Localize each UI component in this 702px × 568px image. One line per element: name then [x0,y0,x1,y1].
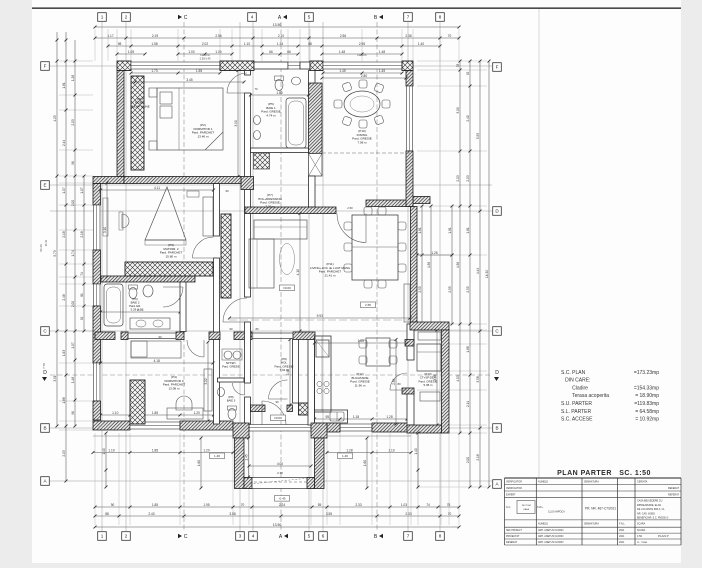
wall C stub 2 [121,332,128,340]
svg-text:96: 96 [71,411,75,415]
door tech room [390,373,407,390]
svg-text:4.36: 4.36 [427,262,431,268]
svg-text:96: 96 [71,161,75,165]
svg-text:B: B [43,426,46,431]
bath2 right wall [180,282,186,332]
svg-text:1.74: 1.74 [71,250,75,256]
svg-text:8: 8 [439,15,442,20]
left wall master part [93,184,101,206]
svg-text:1.10: 1.10 [108,448,114,452]
living rug oval [280,244,295,275]
svg-text:14.30: 14.30 [485,270,489,279]
svg-text:NUMELE: NUMELE [538,523,548,526]
bath1 sink top [292,77,301,85]
svg-text:1.00: 1.00 [188,50,194,54]
svg-text:88: 88 [308,42,312,46]
porch inner dim [248,438,250,477]
wall below shaft [309,176,316,207]
living L sofa horizontal [254,220,307,239]
svg-text:90: 90 [111,503,115,507]
svg-text:3.10: 3.10 [103,227,107,233]
svg-text:1.03: 1.03 [401,503,407,507]
dining right wall lower [406,151,413,207]
svg-text:1.05: 1.05 [128,50,134,54]
living dining table [352,215,398,280]
laundry machines [224,351,232,359]
svg-text:2.56: 2.56 [215,34,221,38]
extension lines top [94,29,96,61]
svg-text:1.65: 1.65 [358,339,364,343]
svg-text:IMPREJMUIRE, ELAN: IMPREJMUIRE, ELAN [637,504,661,507]
svg-text:13.50: 13.50 [273,523,282,527]
svg-text:ARH. ANETUS FLORIN: ARH. ANETUS FLORIN [538,541,564,544]
svg-text:1.73: 1.73 [151,69,157,73]
svg-text:80: 80 [397,382,401,386]
level label porch right [338,453,353,459]
porch side dim left [200,438,202,488]
under-wall dim right of porch [327,452,411,454]
bedroom1 bottom wall [124,177,241,184]
window master left [94,205,101,250]
svg-text:81: 81 [80,293,84,297]
left wall mid part [93,250,101,284]
sill line bottom right [327,435,411,437]
porch bottom end blocks [244,478,252,489]
wall C thin connector [128,332,176,334]
porch left wall [235,438,245,489]
svg-text:1.88: 1.88 [466,346,470,352]
svg-text:4.11: 4.11 [154,186,160,190]
window kitchen bottom [340,424,372,431]
svg-text:2021: 2021 [619,535,625,538]
svg-text:REFERAT: REFERAT [668,494,680,497]
svg-text:3: 3 [239,534,242,539]
wall C stub 5 [234,332,252,340]
svg-text:2.55: 2.55 [466,286,470,292]
grid bubbles bottom [98,532,107,541]
inner dim kitchen [315,342,408,344]
svg-text:1.00: 1.00 [215,50,221,54]
svg-text:2.65: 2.65 [365,303,371,307]
kitchen counter bottom with sink [315,410,348,423]
dim chain left tier4 [83,176,85,331]
svg-text:PLAN PARTER SC. 1:50: PLAN PARTER SC. 1:50 [557,470,651,477]
kitchen right wall stubs [405,340,414,347]
svg-text:F: F [44,64,47,69]
svg-text:90: 90 [225,189,229,193]
dim chain bottom tier1 [95,506,459,508]
svg-text:= 64.58mp: = 64.58mp [635,409,659,415]
svg-text:1.45: 1.45 [379,69,385,73]
svg-text:S.L. PARTER: S.L. PARTER [561,409,591,415]
WC toilet [228,409,236,420]
svg-text:2.03: 2.03 [62,450,66,456]
tech room bottom wall [407,425,442,433]
svg-text:3.58: 3.58 [476,376,480,382]
inner dim living long [230,317,411,319]
svg-text:= 10.92mp: = 10.92mp [635,417,659,423]
bath2 sink [143,285,153,297]
window bath1 top [288,62,300,69]
top wall pillar bath/dining [310,61,323,71]
svg-text:2.02: 2.02 [202,42,208,46]
living top wall [245,207,336,214]
svg-text:D: D [495,370,499,376]
svg-text:Fe+11'a: Fe+11'a [200,53,210,57]
svg-text:BENEFICIAR: S.C. RVDSN 2: BENEFICIAR: S.C. RVDSN 2 [637,517,669,520]
bath2 toilet [129,288,137,299]
tech room top wall [410,322,449,330]
dim chain right tier1 [488,61,490,487]
svg-text:±0.00: ±0.00 [274,416,282,420]
master wardrobe band X [125,262,213,276]
svg-text:2.44: 2.44 [62,140,66,146]
porch junction pillar left [233,423,249,438]
svg-text:1.40: 1.40 [418,42,424,46]
svg-text:BAIE 3: BAIE 3 [227,398,236,402]
svg-text:2.18: 2.18 [62,231,66,237]
svg-text:2.56: 2.56 [340,34,346,38]
inner dim bath2 row [101,311,181,313]
svg-text:S.C. PLAN: S.C. PLAN [561,370,586,376]
svg-text:2.10: 2.10 [278,34,284,38]
svg-text:4.36: 4.36 [456,262,460,268]
svg-text:-0.45: -0.45 [278,497,285,501]
tech room desk [420,392,440,401]
window bedroom3 bottom [130,422,180,429]
kitchen left wall [308,340,315,426]
dim right short 1.26 [417,254,452,256]
svg-text:1.55: 1.55 [196,69,202,73]
svg-text:2.48: 2.48 [62,294,66,300]
svg-text:PR. NR. 467-C7/2021: PR. NR. 467-C7/2021 [585,507,616,511]
svg-text:13.46 m: 13.46 m [197,134,208,138]
svg-text:1.85: 1.85 [152,503,158,507]
window dining french top [323,62,402,69]
window dining right [407,86,413,151]
svg-text:EXPERT: EXPERT [506,494,516,497]
svg-text:7: 7 [407,15,410,20]
svg-text:1.95: 1.95 [203,503,209,507]
svg-text:Pard. GRESIE: Pard. GRESIE [222,364,240,368]
level label porch left [210,453,225,459]
svg-text:4.18: 4.18 [154,359,160,363]
bottom wall left corner [93,421,130,430]
top wall thin seg bath1 right [300,62,310,69]
inner dim master width [101,189,214,191]
svg-text:2.14: 2.14 [466,401,470,407]
svg-text:2021: 2021 [619,541,625,544]
svg-text:4: 4 [251,15,254,20]
svg-text:1.28: 1.28 [386,415,392,419]
svg-text:1.07: 1.07 [62,187,66,193]
wall C stub 3 [176,332,184,340]
master right wardrobe [203,197,213,236]
svg-text:Cladire: Cladire [561,385,588,391]
svg-text:2.00: 2.00 [71,200,75,206]
porch right wall [315,438,325,489]
svg-text:1: 1 [101,534,104,539]
bed1 fold line [205,132,223,150]
shaft with X below bath1 [309,154,323,177]
svg-text:B: B [495,426,498,431]
kitchen right wall [407,324,414,360]
bath1 right wall upper thin [309,71,316,84]
flue dark block [299,403,309,415]
top wall corner pillar left [117,61,131,71]
svg-text:1: 1 [101,15,104,20]
svg-text:2.50/1.45: 2.50/1.45 [200,56,211,60]
dim chain bottom tier2 [95,515,459,517]
svg-text:2.80: 2.80 [361,74,367,78]
master nightstand [187,191,199,197]
inner dim row kitchen bottom [315,418,408,420]
dim chain left tier3 [74,61,76,426]
wall C stub 1 [95,332,115,340]
inner dim master room [101,362,214,364]
sill line bottom left [93,435,233,437]
svg-text:=119.83mp: =119.83mp [634,401,659,407]
svg-text:1:50: 1:50 [637,534,643,538]
top wall pillar right [402,61,413,71]
svg-text:SCARA: SCARA [637,529,646,532]
door WC [233,383,245,395]
svg-text:CERINTA: CERINTA [637,481,648,484]
scan top edge line [32,7,681,9]
door bedroom1 ensuite [227,73,247,93]
dim chain right of living wall [421,206,423,324]
svg-text:±0.00: ±0.00 [283,286,291,290]
dim chain top tier3 [108,45,440,47]
svg-text:4.10: 4.10 [296,269,300,275]
bath2 vanity [130,318,170,329]
svg-text:1.81: 1.81 [418,227,422,233]
grid bubbles right [493,63,502,72]
svg-text:80: 80 [255,327,259,331]
svg-text:3.55: 3.55 [326,512,332,516]
svg-text:70: 70 [448,512,452,516]
top wall thin seg bath1 left [254,62,288,69]
svg-text:3.02: 3.02 [204,378,208,384]
extension lines left [59,60,93,62]
svg-text:2.03: 2.03 [466,175,470,181]
porch floor slope line [250,478,310,484]
svg-text:VERIFICATOR: VERIFICATOR [506,481,522,484]
svg-text:REFERAT: REFERAT [668,487,680,490]
dim chain right tier2 [479,61,481,487]
inner vdim bedroom1 [237,71,239,177]
dining table oval [344,91,380,117]
svg-text:F.N.L.: F.N.L. [619,523,626,526]
svg-text:1.07: 1.07 [80,187,84,193]
svg-text:1.26: 1.26 [431,251,437,255]
svg-text:2.40: 2.40 [148,512,154,516]
svg-text:7.04 m: 7.04 m [280,368,290,372]
kitchen stove circles [317,381,322,386]
svg-text:1.81: 1.81 [62,82,66,88]
washer X box in niche [254,153,270,169]
svg-text:4.00: 4.00 [277,462,283,466]
master chair D [122,214,129,228]
svg-text:92: 92 [80,317,84,321]
svg-text:1.46: 1.46 [342,454,348,458]
svg-text:1.40: 1.40 [414,448,418,454]
svg-text:1.20: 1.20 [194,411,200,415]
extension lines bottom [94,433,96,525]
inner vertical dim living [299,214,301,332]
svg-text:2.18: 2.18 [476,454,480,460]
bath1 toilet [275,80,283,91]
svg-text:95: 95 [325,415,329,419]
hall right wall [293,340,299,404]
svg-text:1.35: 1.35 [277,42,283,46]
level label porch floor [275,496,290,502]
svg-text:= 18.90mp: = 18.90mp [635,393,659,399]
living top wall right of door [366,200,413,207]
bath2 tub [104,284,123,326]
svg-text:DE LOCUINTE IDM A, CL: DE LOCUINTE IDM A, CL [637,508,665,511]
svg-text:ARH. ANETUS FLORIN: ARH. ANETUS FLORIN [538,529,564,532]
door bath2 [163,287,183,307]
svg-text:90: 90 [275,400,279,404]
porch side dim right [366,438,368,488]
extension lines right [417,60,487,62]
left wall upper block [117,71,124,177]
dim chain left tier2 [65,61,67,481]
svg-text:15.80 m: 15.80 m [165,254,176,258]
svg-text:Fe+11'b: Fe+11'b [357,53,367,57]
window bedroom1 top [131,62,220,69]
svg-text:TECTUM: TECTUM [521,505,530,507]
svg-text:5.55: 5.55 [476,133,480,139]
door master bedroom [193,237,214,258]
svg-text:2.03: 2.03 [456,175,460,181]
dim chain left tops [56,32,58,61]
tech room cab top [418,332,441,340]
tech room bed [417,344,441,371]
door dining wide [337,214,366,243]
svg-text:74: 74 [80,272,84,276]
wardrobe bedroom1 X [131,76,144,170]
svg-text:1.88: 1.88 [62,397,66,403]
svg-text:98: 98 [118,42,122,46]
svg-text:1.81: 1.81 [466,227,470,233]
dashed long line living [229,319,410,321]
svg-text:1.45: 1.45 [339,69,345,73]
svg-text:1.48: 1.48 [379,50,385,54]
bath1 right wall dark [309,83,323,154]
svg-text:CASA: CASA [523,508,529,511]
svg-text:CLUJ NAPOCA: CLUJ NAPOCA [548,511,565,514]
dim chain bottom overall [95,526,459,528]
svg-text:3.00: 3.00 [456,107,460,113]
small vchain bottom-right [417,433,419,487]
svg-text:2.03: 2.03 [71,119,75,125]
svg-text:C: C [184,534,188,540]
svg-text:33: 33 [456,64,460,68]
svg-text:66: 66 [269,50,273,54]
master desk strip [103,198,108,236]
svg-text:2.84: 2.84 [392,378,396,384]
nightstand bedroom1 [149,88,157,97]
bedroom3 bench [167,408,203,419]
svg-text:78: 78 [447,503,451,507]
grid bubbles top [98,13,107,22]
master bed triangle [145,187,186,240]
svg-text:2.33: 2.33 [405,512,411,516]
svg-text:4.74 m: 4.74 m [266,113,276,117]
wall A master right / hall strip [214,184,220,237]
inner dim bath1 [251,94,309,96]
svg-text:1.26: 1.26 [71,75,75,81]
bath1 bottom wall [251,148,309,153]
svg-text:VERIFICATOR: VERIFICATOR [506,487,522,490]
grid lines vertical [101,22,103,531]
svg-text:6: 6 [322,534,325,539]
left wall bottom part [93,401,101,420]
svg-text:7.29 m: 7.29 m [265,204,275,208]
svg-text:2021: 2021 [619,529,625,532]
svg-text:2.55: 2.55 [418,286,422,292]
svg-text:1.20: 1.20 [203,448,209,452]
level label hall [280,285,295,291]
dim chain top tier4 short segs [178,53,232,55]
svg-text:2.33: 2.33 [355,503,361,507]
svg-text:SEF PROIECT: SEF PROIECT [506,529,522,532]
bottom wall left-2 [180,421,233,430]
svg-text:SEMNATURA: SEMNATURA [584,523,599,526]
dim chain right inner [451,206,453,324]
svg-text:(P8): (P8) [228,395,233,399]
svg-text:PL. TNNA: PL. TNNA [637,541,647,544]
svg-text:F: F [496,65,499,70]
door corridor to living [223,298,247,322]
inner vdim tech room [436,330,438,425]
svg-text:90: 90 [229,327,233,331]
level label entry [271,415,286,421]
svg-text:=173.23mp: =173.23mp [634,370,659,376]
svg-text:4.03: 4.03 [456,375,460,381]
living L sofa vertical [249,239,274,288]
svg-text:2.55: 2.55 [448,286,452,292]
svg-text:1.60: 1.60 [197,460,201,466]
svg-text:2.36: 2.36 [405,34,411,38]
dining corner wall ext right [413,197,430,204]
bath2 top wall [101,276,195,282]
svg-text:2: 2 [125,15,128,20]
bottom wall kitchen left part [327,423,340,432]
svg-text:70: 70 [448,34,452,38]
svg-text:SEMNATURA: SEMNATURA [584,481,599,484]
bottom wall right [372,423,411,432]
svg-text:5.29 m: 5.29 m [131,308,140,312]
level label living [361,302,376,308]
svg-text:2.00: 2.00 [71,301,75,307]
inner dim dining width [322,77,406,79]
bedroom3 armchair [176,396,192,410]
inner dim hall vertical [289,340,291,406]
svg-text:NUMELE: NUMELE [538,481,548,484]
svg-text:5.73: 5.73 [53,250,57,256]
kitchen table with chairs [366,338,390,366]
svg-text:66: 66 [287,50,291,54]
svg-text:S.C. ACCESE: S.C. ACCESE [561,417,593,423]
door bedroom3 [187,340,204,357]
svg-text:5.08 m: 5.08 m [424,383,434,387]
svg-text:1.28: 1.28 [346,448,352,452]
svg-text:1.85: 1.85 [152,411,158,415]
inner dim row above bottom wall bedroom3 [101,414,214,416]
